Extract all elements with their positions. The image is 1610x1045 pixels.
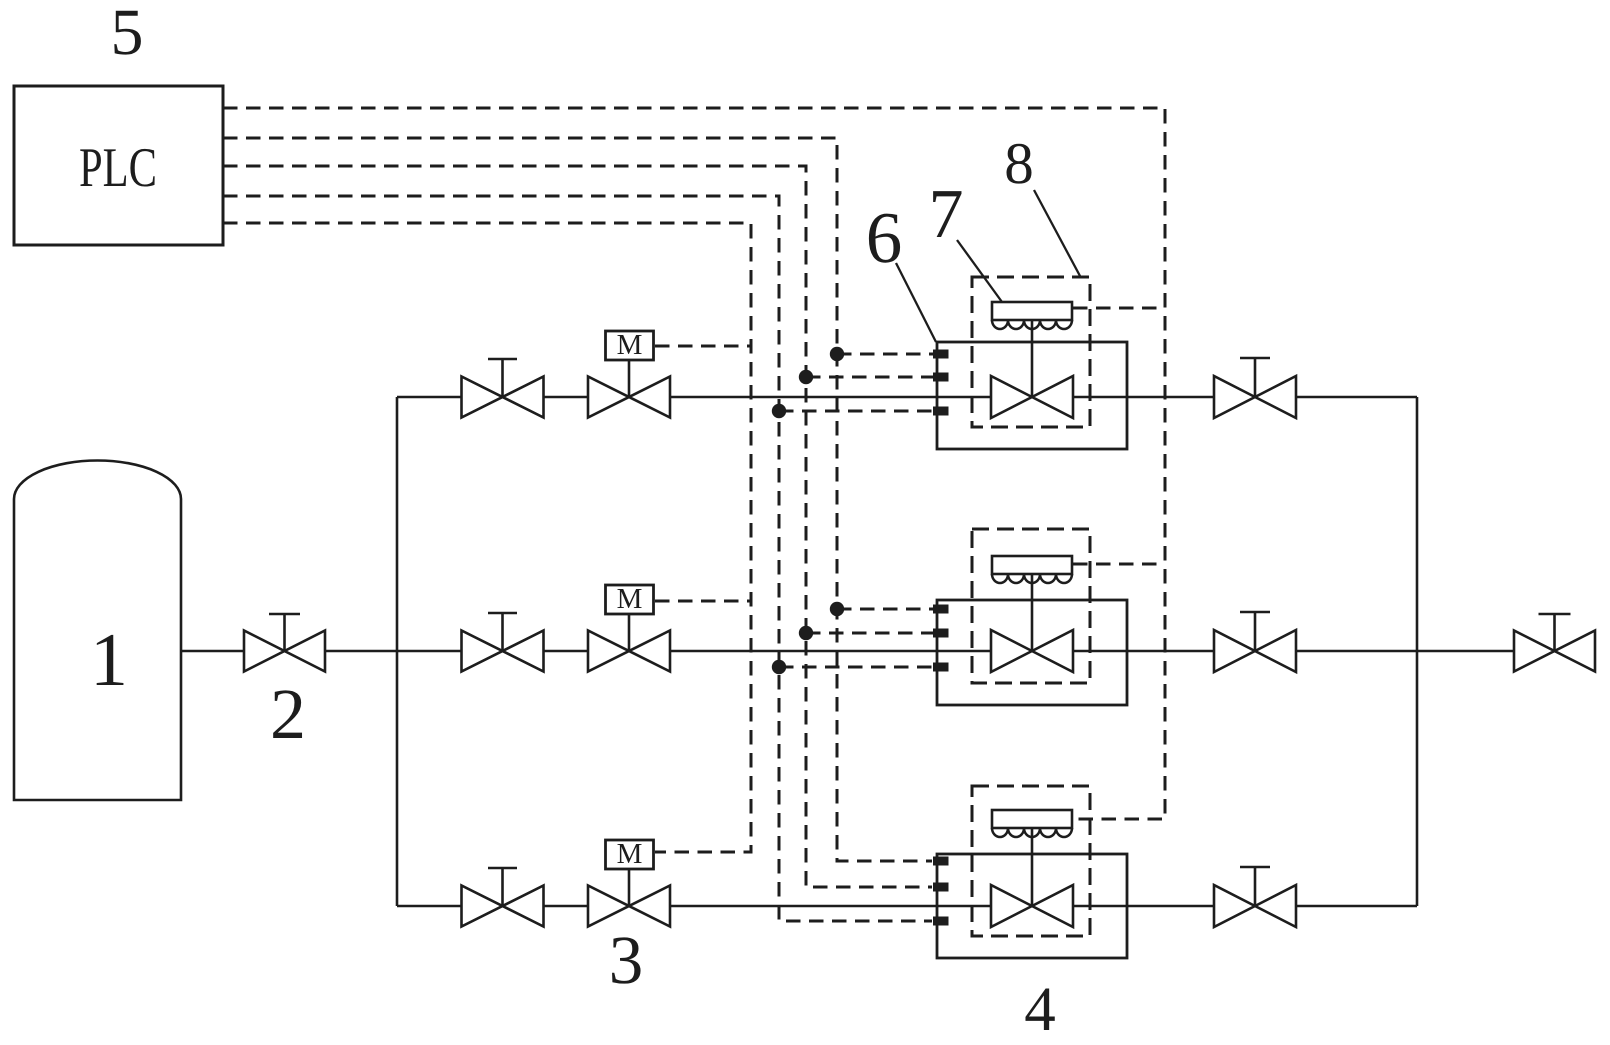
final valve body	[1514, 631, 1595, 672]
motor valve 3 top body	[588, 377, 670, 418]
control valve bottom stem	[1031, 828, 1034, 906]
signal branch to terminal top 1	[837, 353, 933, 356]
right manifold pipe	[1416, 397, 1419, 906]
manual valve top branch stem	[488, 359, 517, 397]
junction dot top 2	[799, 370, 813, 384]
pipe middle branch segment 3	[670, 650, 991, 653]
terminal square middle 3	[933, 663, 949, 672]
manual valve middle branch body	[462, 631, 544, 672]
junction dot middle 3	[772, 660, 786, 674]
positioner 7 top scallops	[992, 320, 1072, 329]
junction dot middle 1	[830, 602, 844, 616]
motor valve 3 bottom body	[588, 886, 670, 927]
pipe tank to valve2	[181, 650, 244, 653]
pipe top branch segment 3	[670, 396, 991, 399]
motor valve 3 middle body	[588, 631, 670, 672]
valve 2 body	[244, 631, 325, 672]
svg-text:8: 8	[1004, 130, 1034, 196]
right manual valve bottom body	[1214, 885, 1296, 927]
signal branch to terminal middle 3	[779, 666, 933, 669]
motor valve 3 top stem	[628, 360, 631, 397]
positioner 7 top body	[992, 302, 1072, 320]
control valve assembly 4 top body rect	[937, 342, 1127, 449]
leader line 8	[1034, 190, 1080, 276]
pipe bottom branch segment 3	[670, 905, 991, 908]
dashed enclosure 8 bottom	[972, 786, 1090, 936]
leader line 6	[896, 263, 936, 342]
signal branch to terminal top 3	[779, 410, 933, 413]
right manual valve middle stem	[1240, 612, 1270, 651]
pipe top branch segment 5	[1296, 396, 1417, 399]
signal line PLC-to-valve4 inputs c (via x=779)	[223, 196, 932, 921]
junction dot top 3	[772, 404, 786, 418]
control valve assembly 4 bottom body rect	[937, 854, 1127, 958]
terminal square bottom 1	[933, 857, 949, 866]
manual valve middle branch stem	[488, 613, 517, 651]
svg-text:PLC: PLC	[79, 137, 157, 199]
terminal square top 3	[933, 407, 949, 416]
tank 1	[14, 461, 181, 801]
pipe middle branch segment 5	[1296, 650, 1417, 653]
right manual valve top stem	[1240, 358, 1270, 397]
signal line PLC-to-valve4 inputs b (via x=806)	[223, 166, 932, 887]
signal line PLC-to-M-valves (via x=751)	[223, 223, 751, 852]
control valve top stem	[1031, 320, 1034, 397]
dashed enclosure 8 top	[972, 277, 1090, 427]
control valve middle stem	[1031, 574, 1034, 651]
junction dot top 1	[830, 347, 844, 361]
pipe bottom branch segment 4	[1073, 905, 1214, 908]
positioner 7 bottom scallops	[992, 828, 1072, 837]
dashed enclosure 8 middle	[972, 529, 1090, 683]
control valve bottom body	[991, 885, 1073, 927]
pipe bottom branch segment 5	[1296, 905, 1417, 908]
positioner 7 bottom body	[992, 810, 1072, 828]
manual valve top branch body	[462, 377, 544, 418]
terminal square top 1	[933, 350, 949, 359]
svg-text:M: M	[617, 583, 643, 615]
terminal square bottom 2	[933, 883, 949, 892]
signal positioner top connector	[1073, 307, 1165, 310]
pipe valve2 to left-valve (middle branch)	[325, 650, 462, 653]
junction dot middle 2	[799, 626, 813, 640]
right manual valve top body	[1214, 376, 1296, 418]
manual valve bottom branch body	[462, 886, 544, 927]
terminal square middle 2	[933, 629, 949, 638]
motor valve 3 bottom M-box	[606, 840, 654, 869]
motor valve 3 top M-box	[606, 331, 654, 360]
pipe middle branch segment 4	[1073, 650, 1214, 653]
PLC controller box 5	[14, 86, 223, 245]
motor valve 3 middle stem	[628, 614, 631, 651]
manual valve bottom branch stem	[488, 868, 517, 906]
pipe manifold to final valve	[1417, 650, 1514, 653]
svg-text:1: 1	[90, 618, 128, 702]
right manual valve middle body	[1214, 630, 1296, 672]
motor valve 3 bottom stem	[628, 869, 631, 906]
motor valve 3 middle M-box	[606, 585, 654, 614]
valve 2 stem	[269, 614, 300, 651]
svg-text:2: 2	[270, 674, 306, 754]
pipe top branch segment 4	[1073, 396, 1214, 399]
terminal square middle 1	[933, 605, 949, 614]
svg-text:M: M	[617, 838, 643, 870]
control valve assembly 4 middle body rect	[937, 600, 1127, 705]
signal line PLC-to-valve4 inputs a (via x=837)	[223, 138, 932, 861]
leader line 7	[957, 240, 1002, 302]
control valve top body	[991, 376, 1073, 418]
control valve middle body	[991, 630, 1073, 672]
pipe top branch segment 2	[544, 396, 589, 399]
svg-text:4: 4	[1024, 974, 1056, 1044]
pipe bottom branch segment 2	[544, 905, 589, 908]
svg-text:3: 3	[609, 922, 644, 998]
terminal square bottom 3	[933, 917, 949, 926]
pipe bottom branch segment 1	[397, 905, 462, 908]
pipe middle branch segment 2	[544, 650, 589, 653]
pipe top branch segment 1	[397, 396, 462, 399]
positioner 7 middle scallops	[992, 574, 1072, 583]
signal positioner middle connector	[1073, 563, 1165, 566]
terminal square top 2	[933, 373, 949, 382]
final valve stem	[1539, 614, 1571, 651]
signal M-box middle connector	[655, 600, 751, 603]
svg-text:5: 5	[111, 0, 144, 69]
signal M-box top connector	[655, 345, 751, 348]
svg-text:M: M	[617, 329, 643, 361]
signal branch to terminal middle 2	[806, 632, 933, 635]
signal branch to terminal top 2	[806, 376, 933, 379]
signal branch to terminal middle 1	[837, 608, 933, 611]
positioner 7 middle body	[992, 556, 1072, 574]
signal line PLC-to-positioners (via x=1165)	[223, 108, 1165, 819]
right manual valve bottom stem	[1240, 867, 1270, 906]
left manifold pipe	[396, 397, 399, 906]
